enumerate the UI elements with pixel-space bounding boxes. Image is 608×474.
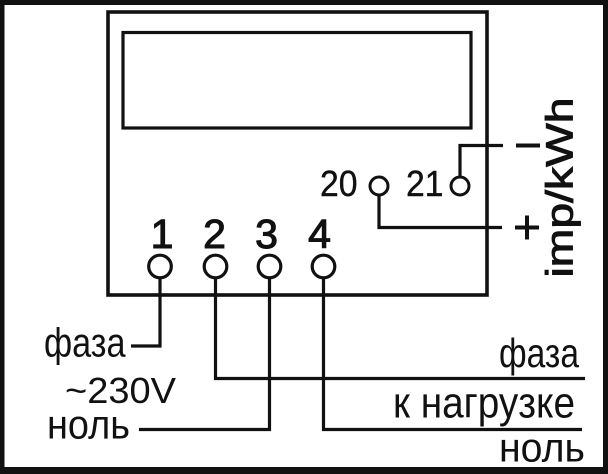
display window	[123, 33, 471, 129]
svg-text:к нагрузке: к нагрузке	[393, 379, 575, 428]
terminal 21	[451, 177, 469, 195]
pin label 1	[151, 211, 174, 257]
wire from terminal 4 to right ноль line	[324, 278, 583, 430]
wire from terminal 1 to фаза label	[131, 278, 160, 346]
~230V label	[65, 370, 176, 411]
terminal 3	[258, 255, 281, 278]
minus symbol	[516, 144, 540, 148]
terminal 2	[204, 255, 227, 278]
wire from terminal 3 to left ноль line	[139, 278, 270, 430]
imp/kWh label	[540, 98, 582, 278]
svg-text:фаза: фаза	[499, 330, 579, 376]
wire from terminal 2 to right фаза line	[216, 278, 586, 379]
к нагрузке label right	[393, 379, 575, 428]
svg-text:ноль: ноль	[499, 425, 585, 471]
svg-text:4: 4	[308, 211, 331, 257]
wire from terminal 20 to plus	[379, 196, 502, 228]
svg-text:imp/kWh: imp/kWh	[540, 98, 582, 278]
plus symbol	[515, 216, 539, 240]
svg-text:3: 3	[255, 211, 278, 257]
terminal 1	[149, 255, 172, 278]
svg-text:фаза: фаза	[44, 320, 126, 366]
svg-text:2: 2	[203, 211, 226, 257]
pin label 20	[320, 163, 358, 204]
pin label 3	[255, 211, 278, 257]
terminal 20	[370, 177, 388, 195]
pin label 4	[308, 211, 331, 257]
фаза label left	[44, 320, 126, 366]
svg-text:20: 20	[320, 163, 358, 204]
pin label 2	[203, 211, 226, 257]
svg-text:21: 21	[406, 163, 444, 204]
wire from terminal 21 to minus	[460, 146, 503, 177]
ноль label right	[499, 425, 585, 471]
pin label 21	[406, 163, 444, 204]
фаза label right	[499, 330, 579, 376]
ноль label left	[47, 402, 130, 448]
svg-text:1: 1	[151, 211, 174, 257]
svg-text:ноль: ноль	[47, 402, 130, 448]
meter body outline	[108, 12, 487, 295]
terminal 4	[312, 255, 335, 278]
